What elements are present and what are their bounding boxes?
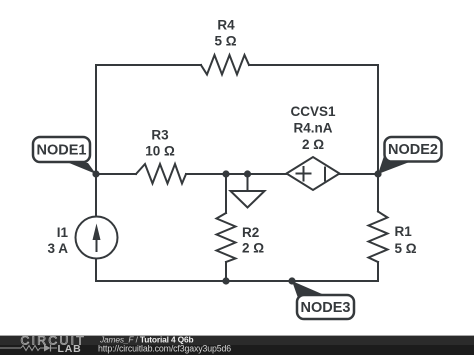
node NODE3 dot: [288, 277, 295, 284]
wire ground stub: [247, 174, 249, 191]
wire I1 bottom lead: [95, 259, 97, 282]
svg-text:R1: R1: [395, 224, 413, 239]
svg-text:5 Ω: 5 Ω: [395, 241, 417, 256]
wire R2 top lead: [225, 174, 227, 213]
node R2 junction: [222, 170, 229, 177]
ground: [231, 191, 265, 208]
svg-text:3 A: 3 A: [47, 241, 68, 256]
svg-text:R3: R3: [151, 128, 169, 143]
node flag NODE3: [292, 281, 354, 319]
logo doodle wire: [0, 347, 57, 349]
wire CCVS to node2: [339, 173, 378, 175]
svg-text:NODE3: NODE3: [301, 300, 351, 316]
svg-text:10 Ω: 10 Ω: [145, 144, 175, 159]
svg-text:LAB: LAB: [58, 343, 82, 355]
node flag NODE2: [378, 137, 442, 174]
svg-text:I1: I1: [57, 225, 69, 240]
svg-text:http://circuitlab.com/cf3gaxy3: http://circuitlab.com/cf3gaxy3up5d6: [98, 343, 231, 353]
CCVS U1 diamond: [287, 157, 340, 190]
wire top-right vertical: [377, 65, 379, 174]
current source I1: [76, 217, 118, 259]
node junction dots: [92, 170, 381, 284]
node flag NODE1: [33, 137, 96, 174]
wire I1 top lead: [95, 174, 97, 217]
wire bottom: [96, 280, 378, 282]
logo doodle resistor: [21, 346, 40, 351]
wire R2 bottom lead: [225, 262, 227, 281]
svg-text:CCVS1: CCVS1: [290, 104, 336, 119]
svg-text:2 Ω: 2 Ω: [242, 241, 264, 256]
node ground junction: [244, 170, 251, 177]
resistor R2: [217, 213, 236, 262]
wire node1 to R3: [96, 173, 136, 175]
node R2 bottom junction: [222, 277, 229, 284]
node NODE2 dot: [374, 170, 381, 177]
wire R1 bottom lead: [377, 262, 379, 281]
wire top-right horizontal: [249, 64, 378, 66]
svg-text:2 Ω: 2 Ω: [302, 137, 324, 152]
svg-text:NODE1: NODE1: [37, 143, 87, 159]
resistor R4: [201, 55, 249, 75]
logo doodle diode: [44, 345, 51, 352]
wire R1 top lead: [377, 174, 379, 212]
svg-text:5 Ω: 5 Ω: [214, 34, 236, 49]
wire R3 to CCVS: [186, 173, 286, 175]
wire top-left vertical: [95, 65, 97, 174]
svg-text:R4.nA: R4.nA: [293, 121, 332, 136]
resistor R3: [136, 164, 186, 184]
node NODE1 dot: [92, 170, 99, 177]
wire top-left horizontal: [96, 64, 201, 66]
svg-text:R4: R4: [217, 18, 235, 33]
footer bar: [0, 334, 474, 355]
svg-text:NODE2: NODE2: [388, 142, 438, 158]
resistor R1: [369, 212, 388, 263]
svg-text:R2: R2: [242, 225, 259, 240]
